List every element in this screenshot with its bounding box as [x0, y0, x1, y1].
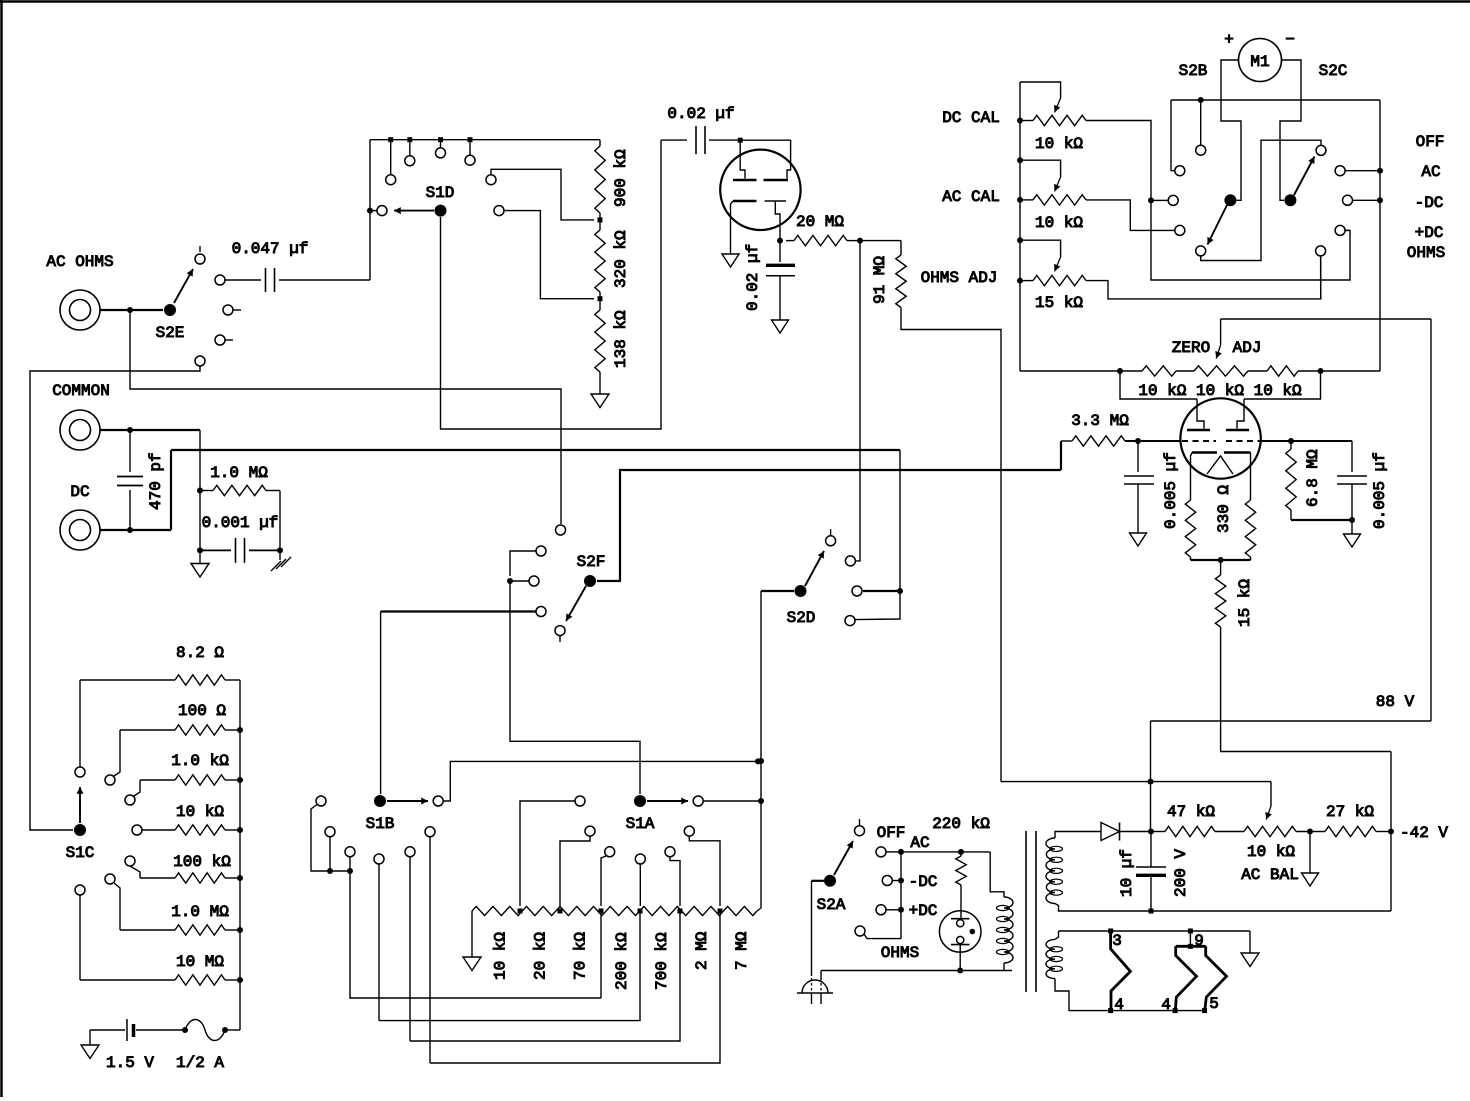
svg-text:470 pf: 470 pf [147, 452, 165, 510]
svg-text:1.0 MΩ: 1.0 MΩ [171, 903, 229, 921]
svg-text:10 kΩ 10 kΩ 10 kΩ: 10 kΩ 10 kΩ 10 kΩ [1138, 382, 1302, 400]
svg-text:-DC: -DC [1415, 194, 1444, 212]
svg-text:330 Ω: 330 Ω [1215, 485, 1233, 533]
svg-text:0.02 µf: 0.02 µf [744, 244, 762, 311]
svg-text:27 kΩ: 27 kΩ [1326, 803, 1374, 821]
svg-text:+DC: +DC [909, 902, 938, 920]
svg-text:S1A: S1A [626, 815, 655, 833]
svg-text:3: 3 [1112, 932, 1122, 950]
svg-text:4: 4 [1114, 996, 1124, 1014]
svg-text:1.0 MΩ: 1.0 MΩ [210, 464, 268, 482]
svg-text:DC: DC [70, 483, 89, 501]
svg-text:200 kΩ: 200 kΩ [613, 932, 631, 990]
svg-text:DC CAL: DC CAL [942, 109, 1000, 127]
svg-text:0.02 µf: 0.02 µf [667, 105, 734, 123]
svg-text:S2A: S2A [817, 896, 846, 914]
svg-text:100 Ω: 100 Ω [178, 702, 226, 720]
svg-text:4: 4 [1161, 996, 1171, 1014]
svg-text:OHMS: OHMS [881, 944, 919, 962]
svg-text:ZERO: ZERO [1172, 339, 1210, 357]
svg-text:0.005 µf: 0.005 µf [1371, 452, 1389, 529]
svg-text:200 V: 200 V [1172, 849, 1190, 897]
svg-text:M1: M1 [1250, 53, 1269, 71]
svg-text:AC OHMS: AC OHMS [46, 253, 113, 271]
svg-text:S2C: S2C [1319, 62, 1348, 80]
svg-text:S2E: S2E [156, 324, 185, 342]
svg-text:S1B: S1B [366, 815, 395, 833]
svg-text:S2F: S2F [577, 553, 606, 571]
svg-text:-DC: -DC [909, 873, 938, 891]
svg-text:6.8 MΩ: 6.8 MΩ [1304, 449, 1322, 507]
svg-text:S1C: S1C [66, 844, 95, 862]
svg-text:−: − [1285, 31, 1295, 49]
svg-text:S1D: S1D [426, 184, 455, 202]
svg-text:10 kΩ: 10 kΩ [1035, 214, 1083, 232]
svg-text:-42 V: -42 V [1400, 824, 1448, 842]
svg-text:138 kΩ: 138 kΩ [612, 310, 630, 368]
svg-text:15 kΩ: 15 kΩ [1236, 579, 1254, 627]
svg-text:700 kΩ: 700 kΩ [653, 932, 671, 990]
svg-text:100 kΩ: 100 kΩ [173, 853, 231, 871]
svg-text:AC BAL: AC BAL [1241, 866, 1299, 884]
svg-text:ADJ: ADJ [1233, 339, 1262, 357]
svg-text:320 kΩ: 320 kΩ [612, 230, 630, 288]
svg-text:S2D: S2D [787, 609, 816, 627]
svg-text:10 kΩ: 10 kΩ [1247, 843, 1295, 861]
svg-text:AC: AC [1421, 163, 1440, 181]
svg-text:10 µf: 10 µf [1118, 849, 1136, 897]
svg-text:91 MΩ: 91 MΩ [871, 256, 889, 304]
svg-text:10 MΩ: 10 MΩ [176, 953, 224, 971]
svg-text:15 kΩ: 15 kΩ [1035, 294, 1083, 312]
svg-text:10 kΩ: 10 kΩ [492, 932, 510, 980]
svg-text:COMMON: COMMON [52, 382, 110, 400]
svg-text:0.005 µf: 0.005 µf [1162, 452, 1180, 529]
svg-text:47 kΩ: 47 kΩ [1167, 803, 1215, 821]
svg-text:3.3 MΩ: 3.3 MΩ [1071, 412, 1129, 430]
svg-text:10 kΩ: 10 kΩ [176, 803, 224, 821]
svg-text:20 MΩ: 20 MΩ [796, 213, 844, 231]
svg-text:OFF: OFF [1416, 133, 1445, 151]
svg-text:2 MΩ: 2 MΩ [693, 931, 711, 970]
svg-text:88 V: 88 V [1376, 693, 1415, 711]
svg-text:AC: AC [910, 834, 929, 852]
svg-text:10 kΩ: 10 kΩ [1035, 135, 1083, 153]
svg-text:1.0 kΩ: 1.0 kΩ [171, 752, 229, 770]
svg-text:8.2 Ω: 8.2 Ω [176, 644, 224, 662]
svg-text:220 kΩ: 220 kΩ [932, 815, 990, 833]
svg-text:7 MΩ: 7 MΩ [733, 931, 751, 970]
svg-text:0.047 µf: 0.047 µf [232, 240, 309, 258]
svg-text:1/2 A: 1/2 A [176, 1054, 224, 1072]
svg-text:AC CAL: AC CAL [942, 188, 1000, 206]
svg-text:+: + [1224, 31, 1234, 49]
svg-text:+DC: +DC [1415, 224, 1444, 242]
svg-text:S2B: S2B [1179, 62, 1208, 80]
svg-text:1.5 V: 1.5 V [106, 1054, 154, 1072]
svg-text:900 kΩ: 900 kΩ [612, 149, 630, 207]
svg-text:5: 5 [1209, 995, 1219, 1013]
svg-text:OFF: OFF [877, 824, 906, 842]
svg-text:0.001 µf: 0.001 µf [202, 514, 279, 532]
svg-text:OHMS ADJ: OHMS ADJ [921, 269, 998, 287]
svg-text:70 kΩ: 70 kΩ [572, 932, 590, 980]
svg-text:OHMS: OHMS [1407, 244, 1445, 262]
svg-text:20 kΩ: 20 kΩ [532, 932, 550, 980]
